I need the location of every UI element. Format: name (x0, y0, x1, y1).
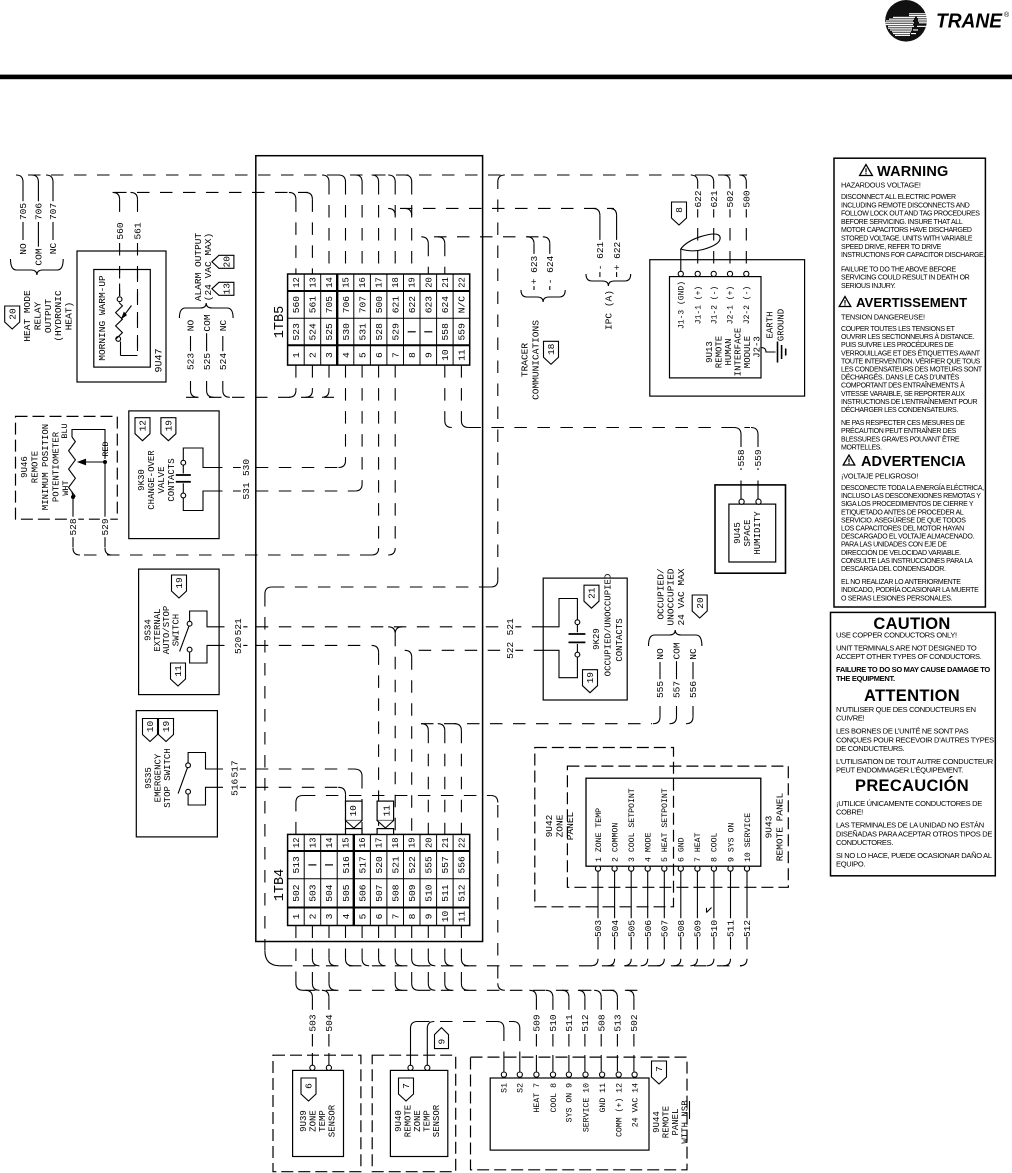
wire riser 1TB4-21 to bus A (445, 959, 452, 966)
svg-text:(24 VAC MAX): (24 VAC MAX) (203, 233, 214, 301)
flag 20 occupied (692, 595, 707, 618)
svg-text:506: 506 (643, 920, 654, 937)
svg-text:4: 4 (341, 913, 352, 919)
wire pass-through 1TB4-19 to bus B (412, 972, 419, 990)
svg-text:12: 12 (138, 420, 149, 432)
wire 521 from 9S34 (212, 617, 256, 638)
svg-text:WHT: WHT (61, 480, 71, 495)
svg-text:DESCARGA DEL CONDENSADOR.: DESCARGA DEL CONDENSADOR. (841, 566, 946, 573)
svg-text:COMPORTANT DES ENTRAÎNEMENTS À: COMPORTANT DES ENTRAÎNEMENTS À (841, 381, 965, 390)
sensor 9U39 zone temp (273, 1055, 361, 1172)
label alarm output (193, 233, 214, 302)
svg-text:REMOTE: REMOTE (31, 451, 41, 483)
svg-text:DESCONECTE TODA LA ENERGÍA ELÉ: DESCONECTE TODA LA ENERGÍA ELÉCTRICA, (841, 483, 984, 492)
flag 20 alarm (212, 255, 234, 268)
svg-text:2: 2 (308, 913, 319, 919)
svg-text:8: 8 (407, 352, 418, 358)
svg-text:REMOTE: REMOTE (662, 1106, 672, 1138)
svg-text:8: 8 (674, 207, 685, 213)
wire 706 drop to 1TB5-15 (339, 175, 346, 182)
svg-text:PEUT ENDOMMAGER L’ÉQUIPEMENT.: PEUT ENDOMMAGER L’ÉQUIPEMENT. (836, 766, 963, 775)
wire 530 (210, 365, 346, 478)
wire +622 IPC stub (610, 208, 623, 277)
wire 621 drop to 1TB5-18 (388, 175, 395, 182)
svg-text:COUPER TOUTES LES TENSIONS ET: COUPER TOUTES LES TENSIONS ET (841, 326, 956, 333)
svg-text:NC: NC (688, 648, 699, 660)
svg-text:DÉCHARGER LES CONDENSATEURS.: DÉCHARGER LES CONDENSATEURS. (841, 405, 958, 414)
svg-text:9U45: 9U45 (733, 522, 743, 544)
svg-text:CONTACTS: CONTACTS (615, 618, 625, 661)
svg-text:19: 19 (408, 837, 418, 848)
wire 559 drop (751, 428, 764, 483)
wire 528 riser to 1TB5-17 (372, 548, 379, 555)
wire 510 to 9U44 (546, 990, 559, 1071)
svg-text:MODULE: MODULE (743, 336, 753, 368)
contacts 9K29 occupied/unoccupied (543, 574, 627, 700)
wire 513 to 9U44 (610, 990, 623, 1071)
svg-text:530: 530 (341, 323, 352, 341)
svg-text:505: 505 (341, 884, 352, 902)
svg-text:555: 555 (424, 856, 435, 874)
svg-text:16: 16 (358, 277, 368, 288)
svg-text:SENSOR: SENSOR (328, 1104, 338, 1137)
svg-text:559: 559 (753, 449, 764, 466)
svg-text:®: ® (1004, 11, 1010, 19)
svg-text:INSTRUCTIONS FOR CAPACITOR DIS: INSTRUCTIONS FOR CAPACITOR DISCHARGE. (841, 252, 985, 259)
wire +623 tracer stub (527, 237, 540, 290)
svg-text:COMMUNICATIONS: COMMUNICATIONS (531, 320, 542, 400)
svg-text:502: 502 (291, 884, 302, 902)
svg-text:CONDUCTORES.: CONDUCTORES. (836, 838, 893, 847)
svg-text:9: 9 (424, 352, 435, 358)
svg-text:14: 14 (325, 277, 335, 288)
svg-text:521: 521 (233, 618, 244, 635)
svg-text:510: 510 (424, 884, 435, 902)
brace tracer (521, 290, 565, 302)
svg-text:21: 21 (441, 277, 451, 288)
svg-text:561: 561 (308, 296, 319, 314)
svg-text:524: 524 (308, 323, 319, 341)
svg-text:10: 10 (348, 805, 359, 816)
svg-text:SERVICING COULD RESULT IN DEAT: SERVICING COULD RESULT IN DEATH OR (841, 275, 970, 282)
svg-text:8 COOL: 8 COOL (711, 832, 720, 862)
wire 555 stub (653, 647, 666, 724)
svg-text:521: 521 (505, 618, 516, 635)
wire -624 tracer stub (543, 237, 556, 290)
sensor 9U45 space humidity (715, 482, 786, 573)
wire 506 from zone panel (641, 871, 654, 966)
svg-text:SENSOR: SENSOR (432, 1104, 442, 1137)
wire trunk 623/624 tracer (434, 236, 547, 238)
svg-text:507: 507 (374, 884, 385, 901)
svg-text:9U47: 9U47 (154, 348, 165, 372)
svg-text:706: 706 (341, 296, 352, 314)
wire 622 drop to 9U13 J1-1 (691, 175, 704, 268)
wire riser 1TB4-20 to bus A (428, 959, 435, 966)
wire 523 stub (185, 318, 197, 397)
wire 623 drop 1TB5-20 (421, 237, 428, 244)
svg-text:CUIVRE!: CUIVRE! (836, 714, 865, 723)
svg-text:3: 3 (324, 913, 335, 919)
svg-text:13: 13 (308, 837, 318, 848)
svg-text:20: 20 (222, 256, 233, 268)
flag 19 9S35 (159, 719, 174, 742)
svg-text:(HYDRONIC: (HYDRONIC (53, 290, 64, 342)
svg-text:9K29: 9K29 (592, 628, 602, 650)
wire 503 to 9U39 (305, 990, 318, 1065)
svg-text:9: 9 (437, 1038, 448, 1044)
svg-text:21: 21 (587, 587, 598, 599)
contact symbol 9K30 (176, 448, 210, 511)
svg-text:2 COMMON: 2 COMMON (611, 823, 620, 862)
svg-text:TEMP: TEMP (423, 1110, 433, 1132)
svg-text:1: 1 (291, 352, 302, 358)
svg-text:621: 621 (390, 296, 401, 314)
wire riser 1TB4-15 to bus A (346, 959, 353, 966)
svg-text:559: 559 (457, 323, 468, 341)
svg-text:522: 522 (407, 856, 418, 874)
svg-text:HUMAN: HUMAN (724, 338, 734, 365)
horizontal rule (0, 75, 1012, 80)
svg-text:WARNING: WARNING (877, 164, 948, 180)
svg-text:GROUND: GROUND (777, 309, 787, 341)
caution notice panel (831, 612, 996, 875)
svg-text:510: 510 (548, 1014, 559, 1031)
wire 521 trunk (256, 617, 543, 835)
module 9U13 remote human interface (650, 260, 805, 396)
wire stub NC-707 (46, 175, 59, 256)
svg-text:CONTACTS: CONTACTS (167, 458, 177, 501)
svg-text:COOL 8: COOL 8 (550, 1083, 559, 1113)
svg-text:8: 8 (407, 913, 418, 919)
svg-text:13: 13 (308, 277, 318, 288)
wire stub COM-706 (31, 175, 44, 267)
svg-text:PARA LAS UNIDADES CON EJE DE: PARA LAS UNIDADES CON EJE DE (841, 542, 947, 549)
svg-text:500: 500 (374, 296, 385, 314)
svg-text:NO: NO (18, 243, 29, 255)
svg-text:524: 524 (218, 353, 229, 370)
wire trunk zone sensor S1/S2 (417, 1021, 514, 1023)
svg-text:18: 18 (546, 343, 557, 355)
svg-text:504: 504 (324, 884, 335, 902)
contacts 9K30 change-over valve (129, 411, 219, 539)
svg-text:4: 4 (341, 352, 352, 358)
svg-text:622: 622 (407, 296, 418, 314)
svg-text:528: 528 (68, 518, 79, 535)
svg-text:24 VAC 14: 24 VAC 14 (631, 1083, 640, 1127)
wire 500 drop to 9U13 J2-2 (739, 175, 752, 268)
wire 561 drop to 1TB5-13 (305, 192, 312, 199)
svg-text:24 VAC MAX: 24 VAC MAX (676, 568, 687, 625)
svg-text:DIRECCIÓN DE VELOCIDAD VARIABL: DIRECCIÓN DE VELOCIDAD VARIABLE. (841, 548, 961, 557)
svg-text:REMOTE PANEL: REMOTE PANEL (775, 793, 786, 862)
switch 9S34 external auto/stop (139, 569, 220, 695)
svg-text:EL NO REALIZAR LO ANTERIORMENT: EL NO REALIZAR LO ANTERIORMENTE (841, 579, 961, 586)
wire trunk 558/559 (445, 365, 750, 427)
wire pass-through 1TB4-13 to bus B (312, 972, 319, 990)
wire 508 from zone panel (674, 871, 687, 966)
svg-text:4 MODE: 4 MODE (645, 832, 654, 862)
svg-text:7: 7 (390, 914, 401, 920)
svg-text:20: 20 (695, 597, 706, 609)
svg-text:707: 707 (48, 203, 59, 220)
label occupied/unoccupied 24 vac max (656, 568, 687, 625)
svg-text:ETIQUETADO ANTES DE PROCEDER A: ETIQUETADO ANTES DE PROCEDER AL (841, 509, 964, 516)
wire 560 drop to 1TB5-12 (289, 192, 296, 199)
svg-text:HAZARDOUS VOLTAGE!: HAZARDOUS VOLTAGE! (841, 181, 921, 190)
svg-text:PRÉCAUTION PEUT ENTRAÎNER DES: PRÉCAUTION PEUT ENTRAÎNER DES (841, 426, 957, 435)
wire S2 drop (513, 1022, 520, 1072)
flag 12 9K30 (135, 418, 150, 441)
flag 13 alarm (212, 282, 234, 295)
warning notice panel (834, 158, 985, 607)
wire 520 from 9S34 (212, 635, 256, 656)
svg-text:IPC (A): IPC (A) (604, 290, 615, 330)
svg-text:9U39: 9U39 (299, 1110, 309, 1132)
svg-text:511: 511 (440, 884, 451, 902)
svg-text:S2: S2 (517, 1083, 526, 1093)
svg-text:5 HEAT SETPOINT: 5 HEAT SETPOINT (661, 788, 670, 862)
svg-text:EARTH: EARTH (766, 311, 776, 338)
svg-text:10 SERVICE: 10 SERVICE (744, 813, 753, 862)
svg-text:19: 19 (164, 420, 175, 432)
svg-text:VALVE: VALVE (157, 466, 167, 493)
svg-text:5: 5 (357, 913, 368, 919)
svg-text:512: 512 (457, 884, 468, 902)
earth ground symbol (761, 309, 787, 363)
svg-text:NO: NO (655, 648, 666, 660)
svg-text:502: 502 (629, 1014, 640, 1031)
heater element 9U47 (116, 270, 138, 356)
svg-text:517: 517 (230, 760, 241, 777)
terminal strip 9U42/9U43 (586, 778, 761, 871)
svg-text:J1-1 (+): J1-1 (+) (694, 286, 703, 324)
svg-text:13: 13 (222, 283, 233, 295)
svg-text:USE COPPER CONDUCTORS ONLY!: USE COPPER CONDUCTORS ONLY! (836, 631, 957, 640)
svg-text:7: 7 (654, 1066, 665, 1072)
wire 502 outside riser (498, 175, 505, 580)
svg-text:7: 7 (401, 1083, 412, 1089)
svg-text:9K30: 9K30 (137, 469, 147, 491)
flag 6 9U39 (301, 1078, 316, 1101)
flag 11 9S34 (171, 663, 186, 686)
svg-text:523: 523 (291, 323, 302, 341)
svg-text:531: 531 (357, 323, 368, 341)
svg-text:504: 504 (324, 1014, 335, 1031)
svg-text:6 GND: 6 GND (678, 837, 687, 862)
wire 622 drop 1TB5-19 (405, 208, 412, 215)
svg-text:558: 558 (736, 449, 747, 466)
wire pass-through 1TB4-20 to bus B (428, 972, 435, 990)
svg-text:NE PAS RESPECTER CES MESURES D: NE PAS RESPECTER CES MESURES DE (841, 420, 965, 427)
svg-text:18: 18 (391, 837, 401, 848)
svg-text:509: 509 (407, 884, 418, 902)
svg-text:SERIOUS INJURY.: SERIOUS INJURY. (841, 283, 896, 290)
wire 520 drop to 1TB4-17 (256, 645, 379, 834)
svg-text:623: 623 (424, 296, 435, 314)
wire 524 stub (218, 318, 230, 397)
shield drain cone 9U13 (681, 234, 720, 271)
wire 510 from zone panel (707, 871, 720, 966)
wire riser 1TB4-19 to bus A (412, 959, 419, 966)
svg-text:NC: NC (48, 243, 59, 255)
svg-text:FAILURE TO DO THE ABOVE BEFORE: FAILURE TO DO THE ABOVE BEFORE (841, 266, 956, 273)
svg-text:11: 11 (381, 805, 392, 817)
wire 508 to 9U44 (594, 990, 607, 1071)
svg-text:J1-3 (GND): J1-3 (GND) (678, 281, 687, 329)
switch symbol 9S35 (178, 753, 210, 806)
svg-text:521: 521 (390, 856, 401, 874)
wire 9U40 riser b (427, 1022, 434, 1066)
flag 18 tracer (544, 341, 559, 364)
wire 523 riser from 1TB5-12 (289, 390, 296, 397)
svg-text:TENSION DANGEREUSE!: TENSION DANGEREUSE! (841, 313, 925, 322)
svg-text:10: 10 (440, 911, 451, 923)
svg-text:510: 510 (709, 920, 720, 937)
svg-text:J2-1 (+): J2-1 (+) (727, 286, 736, 324)
svg-text:+ 623: + 623 (529, 255, 540, 284)
svg-text:REMOTE: REMOTE (715, 336, 725, 368)
terminal block 1TB5 (273, 274, 470, 365)
wire stub NO-705 (16, 175, 29, 256)
svg-text:LOS CAPACITORES DEL MOTOR HAYA: LOS CAPACITORES DEL MOTOR HAYAN (841, 526, 964, 533)
svg-text:511: 511 (564, 1014, 575, 1031)
wire 529 (100, 464, 112, 555)
wire 558 drop (734, 428, 747, 483)
svg-text:RED: RED (101, 441, 111, 456)
svg-text:STOP SWITCH: STOP SWITCH (163, 748, 173, 807)
wire riser 1TB4-22 to bus A (461, 959, 468, 966)
svg-text:VERROUILLAGE ET DES ÉTIQUETTES: VERROUILLAGE ET DES ÉTIQUETTES AVANT (841, 348, 981, 357)
wire 512 to 9U44 (578, 990, 591, 1071)
svg-text:509: 509 (532, 1014, 543, 1031)
svg-text:INCLUSO LAS DESCONEXIONES REMO: INCLUSO LAS DESCONEXIONES REMOTAS Y (841, 493, 981, 500)
svg-text:1 ZONE TEMP: 1 ZONE TEMP (595, 808, 604, 862)
svg-text:INSTRUCTIONS DE L’ENTRAÎNEMENT: INSTRUCTIONS DE L’ENTRAÎNEMENT POUR (841, 397, 977, 406)
svg-text:INTERFACE: INTERFACE (734, 328, 744, 377)
svg-text:J2-2 (-): J2-2 (-) (743, 286, 752, 324)
svg-text:¡VOLTAJE PELIGROSO!: ¡VOLTAJE PELIGROSO! (841, 472, 918, 481)
svg-text:REMOTE: REMOTE (404, 1105, 414, 1137)
svg-text:N/C: N/C (457, 296, 468, 314)
svg-text:ZONE: ZONE (309, 1110, 319, 1132)
potentiometer element 9U46 (60, 423, 111, 499)
svg-text:VITESSE VARAIBLE, SE REPORTER: VITESSE VARAIBLE, SE REPORTER AUX (841, 391, 965, 398)
svg-text:560: 560 (291, 296, 302, 314)
svg-text:20: 20 (7, 308, 18, 320)
svg-text:522: 522 (505, 641, 516, 658)
terminal block 1TB4 (273, 834, 470, 925)
wire 509 from zone panel (690, 871, 703, 966)
svg-text:516: 516 (341, 856, 352, 874)
svg-text:BEFORE SERVICING. INSURE THAT: BEFORE SERVICING. INSURE THAT ALL (841, 219, 963, 226)
flag 21 9K29 (584, 585, 599, 608)
wire 531 (210, 365, 362, 501)
svg-text:ZONE: ZONE (555, 814, 566, 837)
svg-text:9U44: 9U44 (652, 1111, 662, 1133)
svg-text:CONSULTE LAS INSTRUCCIONES PAR: CONSULTE LAS INSTRUCCIONES PARA LA (841, 558, 973, 565)
svg-text:19: 19 (161, 721, 172, 733)
flag 7 9U40 (399, 1078, 414, 1101)
flag 11 1TB4 (377, 801, 394, 834)
svg-text:9U40: 9U40 (394, 1110, 404, 1132)
wire 621 drop to 9U13 J1-2 (707, 175, 720, 268)
wire 525 riser from 1TB5-14 (322, 390, 329, 397)
svg-text:5: 5 (357, 352, 368, 358)
wire 509 to 9U44 (529, 990, 542, 1071)
svg-text:OCCUPIED/UNOCCUPIED: OCCUPIED/UNOCCUPIED (604, 574, 614, 677)
svg-text:508: 508 (676, 920, 687, 937)
svg-text:525: 525 (202, 353, 213, 370)
wire riser 1TB4-16 to bus A (362, 959, 369, 966)
svg-text:9U42: 9U42 (544, 814, 555, 837)
wire pass-through 1TB4-22 to bus B (461, 972, 468, 990)
svg-text:SPEED DRIVE, REFER TO DRIVE: SPEED DRIVE, REFER TO DRIVE (841, 244, 942, 251)
wire riser 1TB4-14 to bus A (329, 959, 336, 966)
svg-text:508: 508 (596, 1014, 607, 1031)
svg-text:9U43: 9U43 (764, 815, 775, 838)
svg-text:NC: NC (218, 320, 229, 332)
svg-text:561: 561 (133, 222, 144, 239)
svg-text:TRANE: TRANE (936, 10, 1003, 33)
svg-text:S1: S1 (501, 1083, 510, 1093)
svg-text:20: 20 (424, 277, 434, 288)
svg-text:705: 705 (18, 203, 29, 220)
svg-text:MORNING WARM-UP: MORNING WARM-UP (97, 275, 108, 361)
wire 502 inside trunk (265, 580, 498, 951)
wire 511 from zone panel (724, 871, 737, 966)
svg-text:STORED VOLTAGE. UNITS WITH VA: STORED VOLTAGE. UNITS WITH VARIABLE (841, 236, 973, 243)
svg-text:9S35: 9S35 (144, 767, 154, 789)
svg-text:503: 503 (308, 884, 319, 902)
flag 7 9U44 (652, 1061, 667, 1084)
brace heat mode relay group (11, 259, 64, 275)
svg-text:ZONE: ZONE (413, 1110, 423, 1132)
wire riser 1TB4-18 to bus A (395, 959, 402, 966)
switch 9S35 emergency stop (136, 711, 217, 837)
svg-text:18: 18 (391, 277, 401, 288)
svg-text:J1-2 (-): J1-2 (-) (710, 286, 719, 324)
svg-text:RELAY: RELAY (32, 301, 43, 330)
svg-text:621: 621 (709, 190, 720, 207)
brace IPC (586, 274, 631, 286)
svg-text:GND 11: GND 11 (599, 1083, 608, 1113)
svg-text:624: 624 (440, 296, 451, 314)
svg-text:NO: NO (186, 320, 197, 332)
svg-text:506: 506 (357, 884, 368, 902)
svg-text:DESCARGADO EL VOLTAJE ALMACENA: DESCARGADO EL VOLTAJE ALMACENADO. (841, 534, 974, 541)
wire 502 from 1TB4-12 (296, 983, 303, 990)
svg-text:- 621: - 621 (595, 241, 606, 270)
wire 502 drop to 9U13 J2-1 (723, 175, 736, 268)
svg-text:10: 10 (145, 721, 156, 733)
svg-text:520: 520 (233, 637, 244, 654)
svg-text:530: 530 (241, 459, 252, 476)
svg-text:HEAT 7: HEAT 7 (533, 1083, 542, 1113)
switch symbol 9S34 (180, 611, 212, 663)
svg-text:HEAT): HEAT) (64, 302, 75, 331)
wire 705 drop to 1TB5-14 (322, 175, 329, 182)
unit boundary box (256, 156, 483, 942)
panel 9U42 zone panel box (535, 748, 674, 907)
wire harness bus lower B (303, 989, 640, 991)
svg-text:COM: COM (202, 314, 213, 331)
svg-text:1TB5: 1TB5 (273, 306, 288, 338)
svg-text:9U13: 9U13 (705, 341, 715, 363)
wire 516 (211, 777, 346, 834)
svg-text:557: 557 (440, 856, 451, 873)
svg-text:517: 517 (357, 856, 368, 873)
